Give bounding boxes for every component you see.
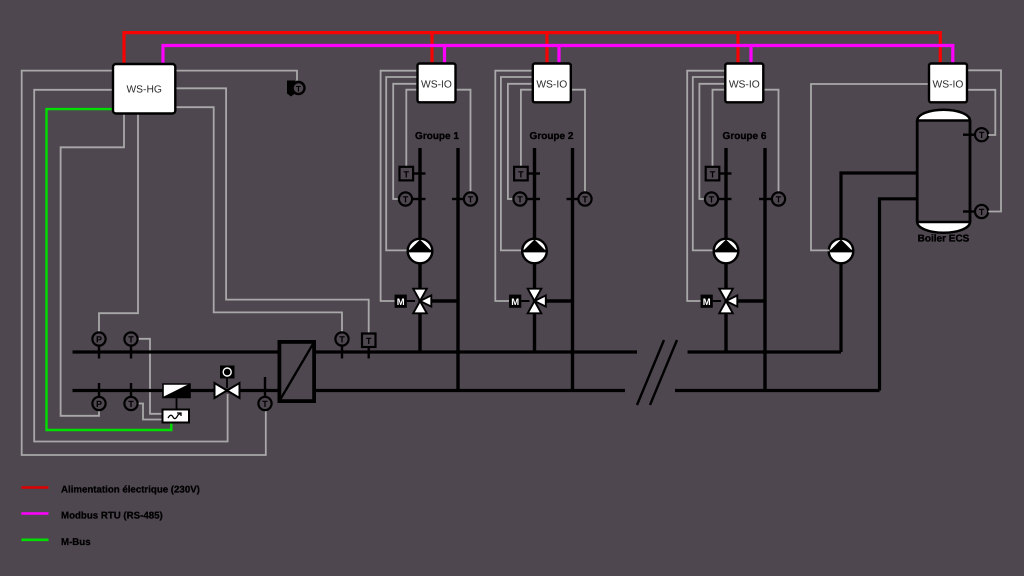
- Groupe 6 left T sensor: [705, 192, 732, 205]
- wire WS-HG to supply T sensor: [175, 107, 342, 332]
- controller WS-HG: [113, 64, 175, 114]
- svg-text:T: T: [979, 207, 985, 217]
- return header mid: [316, 389, 625, 392]
- svg-text:T: T: [517, 195, 523, 205]
- Groupe 1 return riser pipe: [456, 148, 459, 391]
- energy meter: [163, 410, 190, 423]
- Groupe 2 supply riser pipe: [533, 148, 536, 352]
- wire WS-IO2 to right T sensor: [571, 90, 585, 193]
- Groupe 2 right T sensor: [567, 192, 592, 205]
- wire WS-IO4 to boiler bottom T: [967, 70, 1001, 211]
- Groupe 2 return riser pipe: [571, 148, 574, 391]
- svg-text:WS-IO: WS-IO: [536, 80, 567, 91]
- wire WS-HG to return T sensor: [22, 71, 266, 455]
- svg-text:Alimentation électrique (230V): Alimentation électrique (230V): [61, 485, 200, 496]
- boiler bottom T sensor: [963, 205, 988, 218]
- wire WS-IO2 to T-square sensor: [521, 90, 533, 167]
- Groupe 2 left T sensor: [513, 192, 540, 205]
- Groupe 1 pump: [408, 239, 433, 264]
- heat exchanger: [279, 342, 314, 401]
- green M-Bus wire: [47, 109, 172, 430]
- svg-text:Groupe 2: Groupe 2: [530, 131, 574, 142]
- ECS pump: [829, 239, 854, 264]
- svg-text:P: P: [96, 335, 102, 345]
- valve 2-way on return: [215, 366, 240, 399]
- wire WS-IO6 to left T sensor: [699, 84, 725, 199]
- Groupe 2 3-way valve: [528, 289, 546, 314]
- Groupe 1 3-way valve: [413, 289, 431, 314]
- svg-text:WS-HG: WS-HG: [126, 85, 161, 96]
- supply P sensor: [92, 332, 105, 358]
- svg-text:T: T: [776, 195, 782, 205]
- svg-text:T: T: [296, 85, 301, 94]
- wire WS-IO1 to right T sensor: [456, 90, 471, 193]
- break slash 1: [637, 340, 664, 405]
- red 230V bus: [124, 33, 940, 64]
- svg-text:T: T: [366, 336, 372, 346]
- wire WS-IO6 to pump: [693, 77, 726, 250]
- svg-text:T: T: [468, 195, 474, 205]
- Groupe 2 pump: [522, 239, 547, 264]
- supply T-square sensor: [362, 334, 376, 359]
- wire supply meter T to energy meter: [138, 339, 163, 414]
- wire WS-HG to return P sensor: [61, 114, 124, 416]
- Groupe 1 valve outlet branch: [420, 299, 458, 302]
- wire WS-IO4 to ECS pump: [811, 84, 929, 250]
- Groupe 6 T-square sensor: [706, 167, 732, 181]
- svg-text:T: T: [710, 169, 716, 179]
- legend red line: [21, 486, 48, 489]
- Groupe 1 valve actuator M: [395, 295, 415, 308]
- svg-text:T: T: [128, 399, 134, 409]
- Groupe 1 T-square sensor: [400, 167, 426, 181]
- supply header left: [73, 350, 278, 353]
- wire WS-IO1 to left T sensor: [393, 84, 417, 199]
- ECS boiler supply pipe: [841, 173, 917, 352]
- return P sensor: [92, 383, 105, 410]
- svg-text:M-Bus: M-Bus: [61, 537, 91, 548]
- Groupe 2 T-square sensor: [514, 167, 540, 181]
- wire WS-IO6 to right T sensor: [763, 90, 778, 193]
- legend magenta line: [21, 512, 48, 515]
- heat exchanger diagonal: [279, 342, 314, 402]
- boiler shell: [917, 121, 970, 223]
- svg-text:Groupe 1: Groupe 1: [415, 131, 459, 142]
- svg-text:M: M: [397, 297, 405, 308]
- svg-text:Modbus RTU (RS-485): Modbus RTU (RS-485): [61, 511, 163, 522]
- valve actuator M: [226, 379, 228, 389]
- wire WS-IO2 to valve actuator: [495, 71, 533, 301]
- svg-text:WS-IO: WS-IO: [421, 80, 452, 91]
- return header right: [675, 389, 880, 392]
- magenta Modbus bus: [163, 46, 953, 65]
- return header left: [73, 389, 278, 392]
- svg-text:T: T: [128, 335, 134, 345]
- Groupe 1 left T sensor: [399, 192, 426, 205]
- ECS boiler return pipe: [880, 199, 918, 391]
- controller WS-IO4: [929, 64, 967, 103]
- wire WS-IO1 to pump: [386, 77, 417, 250]
- svg-text:P: P: [96, 399, 102, 409]
- svg-text:T: T: [709, 195, 715, 205]
- break symbol slashes: [637, 340, 677, 405]
- Groupe 6 valve actuator M: [701, 295, 721, 308]
- legend: [21, 485, 200, 548]
- wire WS-IO4 to boiler top T: [967, 90, 995, 135]
- supply header right: [688, 350, 842, 353]
- svg-text:WS-IO: WS-IO: [729, 80, 760, 91]
- boiler top T sensor: [963, 128, 988, 141]
- svg-text:M: M: [703, 297, 711, 308]
- wire WS-IO2 to pump: [501, 77, 533, 250]
- wire WS-IO1 to valve actuator: [381, 71, 418, 301]
- wire WS-HG to outdoor sensor: [175, 71, 297, 81]
- wire WS-IO2 to left T sensor: [508, 84, 533, 199]
- return T sensor: [258, 377, 271, 410]
- supply meter T sensor: [124, 332, 137, 358]
- supply header mid: [316, 350, 637, 353]
- Groupe 2 valve actuator M: [509, 295, 529, 308]
- supply mid T sensor: [335, 332, 348, 358]
- Groupe 6 return riser pipe: [763, 148, 766, 391]
- controller WS-IO1: [418, 64, 456, 103]
- return meter T sensor: [124, 383, 137, 410]
- svg-text:M: M: [511, 297, 519, 308]
- boiler bottom cap: [917, 222, 970, 233]
- Groupe 1 supply riser pipe: [418, 148, 421, 352]
- boiler top cap: [917, 110, 970, 121]
- svg-text:T: T: [404, 169, 410, 179]
- wire WS-IO6 to valve actuator: [687, 71, 725, 301]
- svg-text:T: T: [582, 195, 588, 205]
- outdoor sensor icon: [287, 81, 305, 97]
- wire WS-IO1 to T-square sensor: [406, 90, 417, 167]
- filter on return: [163, 384, 190, 410]
- svg-text:T: T: [979, 130, 985, 140]
- wire WS-HG to supply P sensor: [99, 114, 138, 333]
- wire WS-HG to supply T-square sensor: [175, 88, 368, 333]
- svg-text:Boiler ECS: Boiler ECS: [918, 234, 970, 245]
- wire return meter T to energy meter: [138, 404, 163, 420]
- controller WS-IO2: [533, 64, 571, 103]
- controller WS-IO6: [725, 64, 763, 103]
- svg-text:WS-IO: WS-IO: [933, 80, 964, 91]
- Groupe 6 pump: [714, 239, 739, 264]
- Groupe 6 right T sensor: [759, 192, 785, 205]
- Groupe 6 3-way valve: [719, 289, 737, 314]
- svg-text:T: T: [262, 399, 268, 409]
- Groupe 1 right T sensor: [452, 192, 477, 205]
- svg-text:T: T: [339, 335, 345, 345]
- Groupe 6 valve outlet branch: [726, 299, 765, 302]
- svg-text:Groupe 6: Groupe 6: [723, 131, 767, 142]
- Groupe 2 valve outlet branch: [535, 299, 573, 302]
- legend green line: [21, 538, 48, 541]
- wire WS-IO6 to T-square sensor: [713, 90, 726, 167]
- break slash 2: [650, 340, 677, 405]
- svg-text:T: T: [518, 169, 524, 179]
- Groupe 6 supply riser pipe: [724, 148, 727, 352]
- svg-text:T: T: [403, 195, 409, 205]
- wire WS-HG to return valve actuator: [34, 90, 227, 442]
